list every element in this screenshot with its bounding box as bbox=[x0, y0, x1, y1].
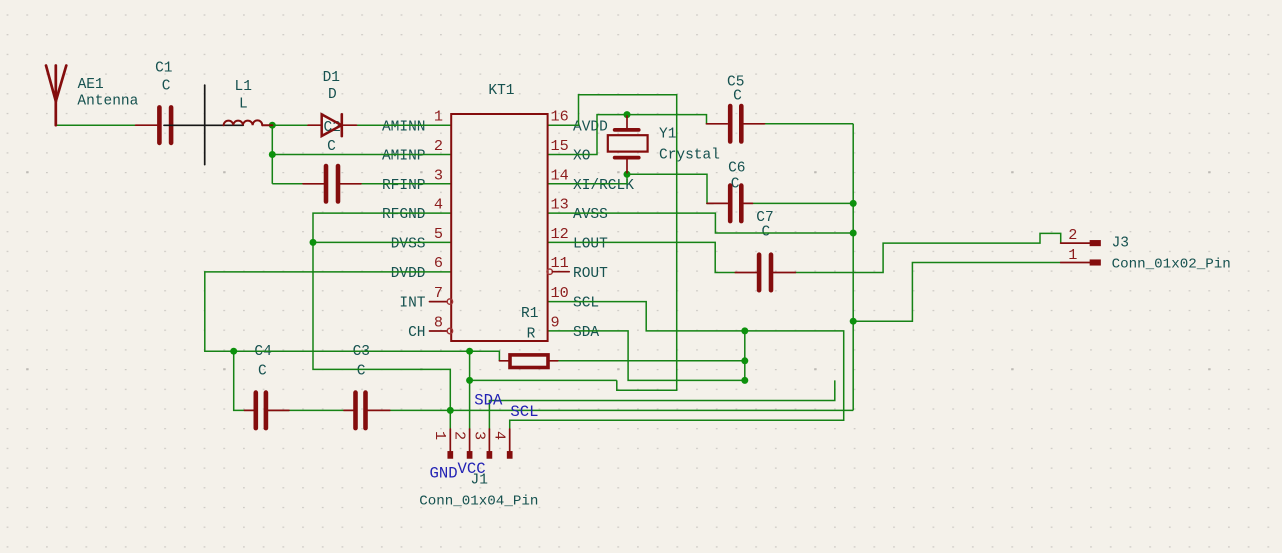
svg-text:1: 1 bbox=[434, 108, 443, 126]
svg-text:Antenna: Antenna bbox=[77, 94, 138, 110]
junction J3 pin1 trunk bbox=[850, 318, 857, 325]
svg-text:3: 3 bbox=[434, 166, 443, 184]
svg-text:J3: J3 bbox=[1112, 236, 1129, 252]
svg-text:AMINP: AMINP bbox=[382, 149, 426, 165]
svg-text:D: D bbox=[328, 87, 337, 103]
svg-text:C: C bbox=[357, 363, 366, 379]
svg-text:L: L bbox=[239, 97, 248, 113]
svg-text:XO: XO bbox=[573, 149, 590, 165]
svg-text:6: 6 bbox=[434, 254, 443, 272]
wire to C2 left bbox=[272, 183, 303, 185]
connector J1 pin 4 bbox=[508, 429, 512, 458]
wire node down from L1 junction bbox=[271, 125, 273, 184]
junction AVSS trunk bbox=[850, 230, 857, 237]
svg-text:XI/RCLK: XI/RCLK bbox=[573, 178, 634, 194]
pin 8 CH with bubble bbox=[430, 328, 453, 333]
svg-text:C7: C7 bbox=[756, 210, 773, 226]
svg-text:DVDD: DVDD bbox=[391, 266, 426, 282]
svg-text:C3: C3 bbox=[353, 344, 370, 360]
svg-text:AE1: AE1 bbox=[78, 77, 104, 93]
junction at L1 output bbox=[269, 122, 276, 129]
svg-text:10: 10 bbox=[551, 284, 569, 302]
wire VCC horizontal bbox=[470, 379, 617, 381]
junction R1-SDA bbox=[741, 377, 748, 384]
svg-text:11: 11 bbox=[551, 254, 569, 272]
capacitor C4 bbox=[245, 393, 290, 429]
wire XO pin to crystal top bbox=[547, 115, 718, 155]
wire C2 right to RFINP bbox=[361, 183, 451, 185]
IC U1 KT1 body bbox=[451, 114, 547, 341]
connector J3 pin 1 bbox=[1061, 260, 1100, 264]
svg-text:C1: C1 bbox=[155, 61, 172, 77]
svg-text:3: 3 bbox=[470, 431, 488, 440]
svg-text:4: 4 bbox=[491, 431, 509, 440]
connector J1 pin 1 bbox=[448, 429, 452, 458]
svg-text:ROUT: ROUT bbox=[573, 266, 608, 282]
svg-text:D1: D1 bbox=[323, 70, 340, 86]
wire antenna to C1 bbox=[56, 124, 136, 126]
black graphic line horizontal bbox=[164, 124, 243, 126]
svg-text:RFINP: RFINP bbox=[382, 178, 426, 194]
crystal Y1 bbox=[608, 116, 648, 173]
antenna AE1 bbox=[46, 66, 66, 126]
svg-text:1: 1 bbox=[431, 431, 449, 440]
svg-text:AMINN: AMINN bbox=[382, 119, 426, 135]
capacitor C5 bbox=[707, 106, 765, 142]
svg-text:13: 13 bbox=[551, 196, 569, 214]
svg-text:Conn_01x02_Pin: Conn_01x02_Pin bbox=[1112, 257, 1231, 273]
wire J3 pin1 bbox=[853, 263, 1060, 322]
pin 7 INT with bubble bbox=[430, 299, 453, 304]
svg-text:C: C bbox=[733, 89, 742, 105]
wire AVDD pin up-over loop bbox=[547, 95, 677, 391]
svg-text:4: 4 bbox=[434, 196, 443, 214]
junction crystal top bbox=[624, 111, 631, 118]
junction C4 riser bbox=[230, 348, 237, 355]
svg-text:R1: R1 bbox=[521, 306, 538, 322]
svg-text:5: 5 bbox=[434, 225, 443, 243]
svg-text:Crystal: Crystal bbox=[659, 147, 720, 163]
wire AVSS pin bbox=[547, 213, 853, 233]
svg-text:RFGND: RFGND bbox=[382, 207, 426, 223]
junction DVSS-RFGND bbox=[310, 239, 317, 246]
svg-text:7: 7 bbox=[434, 284, 443, 302]
wire LOUT pin to C7 bbox=[547, 242, 735, 272]
wire D1 cathode to pin AMINN bbox=[357, 124, 452, 126]
wire SDA to J1 pin3 bbox=[489, 380, 834, 429]
svg-text:C: C bbox=[258, 363, 267, 379]
svg-text:Y1: Y1 bbox=[659, 127, 676, 143]
junction AMINP branch bbox=[269, 151, 276, 158]
svg-text:SDA: SDA bbox=[474, 392, 503, 410]
svg-text:INT: INT bbox=[399, 296, 425, 312]
inductor L1 bbox=[224, 120, 273, 125]
svg-text:16: 16 bbox=[551, 108, 569, 126]
wire ground trunk vertical bbox=[852, 124, 854, 411]
junction J1 pin1 bbox=[447, 407, 454, 414]
svg-text:C: C bbox=[162, 78, 171, 94]
svg-text:DVSS: DVSS bbox=[391, 237, 426, 253]
capacitor C1 bbox=[136, 107, 172, 142]
svg-text:9: 9 bbox=[551, 314, 560, 332]
wire C7 right to J3 pin2 bbox=[795, 233, 1060, 272]
wire DVSS pin bbox=[313, 241, 451, 243]
wire SDA pin bbox=[547, 331, 745, 381]
svg-text:2: 2 bbox=[434, 137, 443, 155]
wire C3 right to ground trunk bbox=[390, 409, 853, 411]
junction R1-SCL bbox=[741, 327, 748, 334]
diode D1 bbox=[308, 114, 357, 136]
wire AMINP branch bbox=[272, 154, 451, 156]
wire crystal bottom to C6 bbox=[627, 174, 714, 203]
wire C6 right to trunk bbox=[753, 202, 854, 204]
svg-text:GND: GND bbox=[430, 464, 458, 482]
connector J1 pin 2 bbox=[468, 429, 472, 458]
wire mid vertical R1 to SCL/SDA bbox=[744, 331, 746, 381]
capacitor C6 bbox=[707, 186, 753, 222]
wire XI/RCLK pin to crystal bottom bbox=[547, 174, 627, 184]
connector J3 pin 2 bbox=[1061, 241, 1100, 245]
wire C5 right to trunk bbox=[765, 123, 854, 125]
wire L1 to D1 anode bbox=[272, 124, 308, 126]
wire C4 riser bbox=[234, 351, 245, 410]
svg-text:C4: C4 bbox=[254, 344, 271, 360]
svg-text:Conn_01x04_Pin: Conn_01x04_Pin bbox=[419, 494, 538, 510]
wire J1 pin2 drop bbox=[469, 351, 471, 429]
svg-text:15: 15 bbox=[551, 137, 569, 155]
resistor R1 bbox=[499, 355, 557, 368]
junction J1 pin2 top bbox=[466, 348, 473, 355]
capacitor C2 bbox=[303, 166, 361, 202]
svg-text:SCL: SCL bbox=[510, 403, 538, 421]
connector J1 pin 3 bbox=[487, 429, 491, 458]
svg-text:12: 12 bbox=[551, 225, 569, 243]
svg-text:C6: C6 bbox=[728, 161, 745, 177]
svg-text:SDA: SDA bbox=[573, 325, 599, 341]
junction VCC branch bbox=[466, 377, 473, 384]
capacitor C3 bbox=[344, 393, 390, 429]
wire SCL pin to J1 pin4 bbox=[510, 302, 844, 430]
svg-text:R: R bbox=[527, 326, 536, 342]
svg-text:KT1: KT1 bbox=[488, 83, 514, 99]
wire RFGND pin to left bbox=[313, 213, 451, 429]
wire C4 to C3 bbox=[268, 409, 344, 411]
svg-text:14: 14 bbox=[551, 166, 569, 184]
svg-text:2: 2 bbox=[1068, 226, 1077, 244]
svg-text:VCC: VCC bbox=[458, 460, 486, 478]
svg-text:SCL: SCL bbox=[573, 296, 599, 312]
svg-text:AVSS: AVSS bbox=[573, 207, 608, 223]
wire R1 right bbox=[558, 360, 745, 362]
junction crystal bottom bbox=[624, 171, 631, 178]
svg-text:L1: L1 bbox=[235, 79, 252, 95]
svg-text:1: 1 bbox=[1068, 246, 1077, 264]
capacitor C7 bbox=[735, 255, 795, 291]
junction C6 trunk bbox=[850, 200, 857, 207]
svg-text:CH: CH bbox=[408, 325, 425, 341]
wire DVDD pin loop bbox=[205, 272, 500, 361]
pin 11 ROUT with bubble bbox=[547, 269, 569, 274]
svg-text:LOUT: LOUT bbox=[573, 237, 608, 253]
svg-text:8: 8 bbox=[434, 314, 443, 332]
junction R1 right bbox=[741, 357, 748, 364]
black graphic line vertical bbox=[204, 85, 206, 165]
svg-text:C: C bbox=[327, 139, 336, 155]
svg-text:2: 2 bbox=[451, 431, 469, 440]
